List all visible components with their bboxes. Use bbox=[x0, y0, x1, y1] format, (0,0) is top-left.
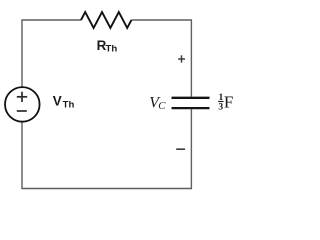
svg-text:C: C bbox=[158, 100, 166, 112]
svg-text:3: 3 bbox=[218, 102, 223, 113]
svg-text:Th: Th bbox=[63, 99, 75, 110]
svg-text:F: F bbox=[224, 92, 233, 111]
svg-text:Th: Th bbox=[106, 44, 118, 55]
svg-text:V: V bbox=[53, 93, 62, 108]
